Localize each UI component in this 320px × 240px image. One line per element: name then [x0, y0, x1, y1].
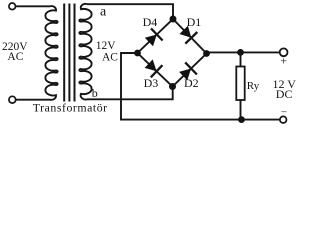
wire b: secondary bottom to bridge bottom — [87, 90, 173, 100]
wire Ry bottom lead — [240, 100, 242, 120]
transformer secondary winding — [79, 4, 91, 100]
wire Ry top lead — [240, 52, 242, 66]
terminal minus — [280, 116, 287, 123]
diode D2 — [179, 69, 191, 81]
diode D3 — [145, 59, 157, 71]
wire left node to minus rail — [121, 53, 280, 120]
svg-text:b: b — [92, 86, 98, 100]
wire primary bottom — [16, 99, 50, 101]
diode D4 — [145, 35, 157, 47]
svg-text:a: a — [100, 4, 107, 19]
svg-text:−: − — [281, 107, 287, 119]
wire primary top — [16, 5, 51, 7]
svg-text:+: + — [280, 54, 287, 68]
node right — [203, 50, 210, 57]
node left — [134, 50, 141, 57]
terminal bottom-left — [9, 96, 16, 103]
terminal top-left — [9, 3, 16, 10]
svg-text:DC: DC — [276, 87, 293, 101]
junction dot top of Ry — [237, 49, 244, 56]
resistor Ry body — [236, 67, 244, 101]
svg-text:D4: D4 — [143, 15, 158, 29]
svg-text:Ry: Ry — [247, 80, 260, 92]
svg-text:D1: D1 — [187, 15, 202, 29]
wire right node to plus terminal — [207, 52, 280, 53]
svg-text:AC: AC — [102, 51, 118, 63]
bridge diamond wires — [138, 19, 207, 87]
transformer core — [64, 4, 74, 102]
junction dot bottom of Ry — [238, 116, 245, 123]
svg-text:AC: AC — [7, 51, 23, 63]
svg-text:D2: D2 — [184, 76, 199, 90]
svg-text:D3: D3 — [144, 76, 159, 90]
wire a: secondary top to bridge top — [87, 4, 173, 16]
svg-text:12V: 12V — [96, 40, 117, 52]
diode D1 — [179, 26, 191, 38]
svg-text:Transformatör: Transformatör — [33, 101, 108, 115]
node top — [170, 16, 177, 23]
terminal plus — [280, 48, 288, 56]
node bottom — [169, 83, 176, 90]
transformer primary winding — [45, 6, 57, 100]
